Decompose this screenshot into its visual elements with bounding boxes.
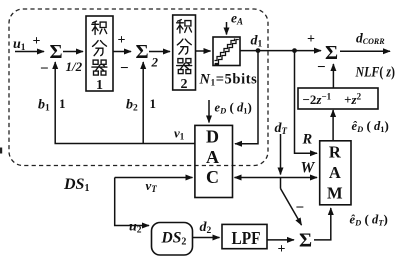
svg-text:R: R	[329, 143, 342, 162]
svg-text:A: A	[329, 163, 341, 182]
svg-text:+: +	[33, 34, 41, 49]
svg-text:A: A	[206, 147, 219, 167]
svg-text:NLF( z): NLF( z)	[355, 65, 395, 81]
svg-text:−2z−1 +z2: −2z−1 +z2	[303, 91, 362, 107]
svg-text:1: 1	[96, 78, 103, 93]
svg-text:LPF: LPF	[232, 228, 261, 248]
svg-text:2: 2	[151, 55, 159, 70]
svg-text:−: −	[120, 61, 129, 77]
svg-text:W: W	[301, 160, 316, 177]
svg-text:−: −	[296, 200, 305, 216]
svg-text:+: +	[118, 33, 126, 48]
svg-text:M: M	[327, 184, 343, 203]
svg-text:2: 2	[181, 77, 188, 92]
svg-text:Σ: Σ	[135, 41, 148, 63]
svg-text:+: +	[307, 32, 315, 47]
svg-text:R: R	[302, 132, 313, 148]
svg-text:+: +	[278, 242, 286, 257]
svg-text:−: −	[317, 60, 326, 76]
svg-text:N1=5bits: N1=5bits	[199, 72, 258, 88]
svg-text:Σ: Σ	[299, 230, 312, 252]
svg-text:1: 1	[59, 96, 66, 111]
svg-text:1/2: 1/2	[66, 59, 83, 74]
svg-text:−: −	[40, 61, 49, 77]
svg-text:Σ: Σ	[325, 42, 338, 64]
svg-text:C: C	[206, 167, 219, 187]
svg-text:Σ: Σ	[49, 41, 62, 63]
svg-text:1: 1	[150, 96, 157, 111]
svg-text:D: D	[206, 127, 219, 147]
